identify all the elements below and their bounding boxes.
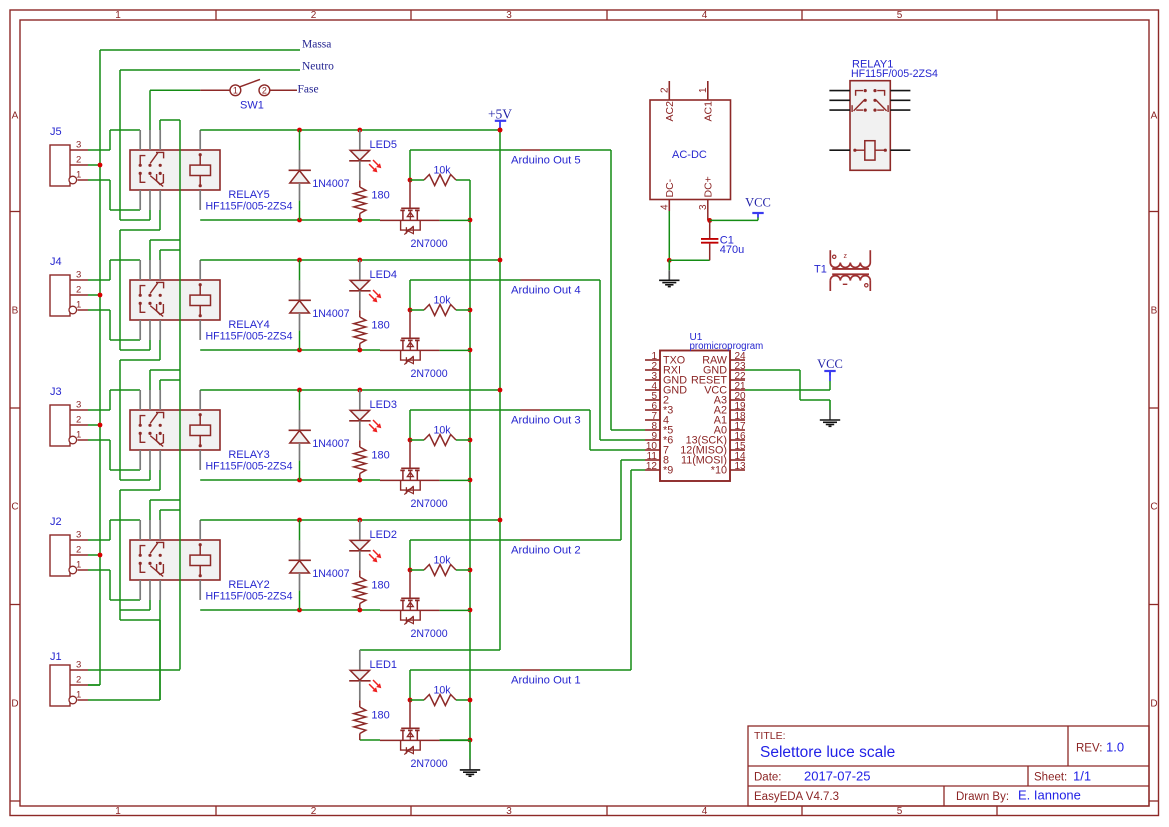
svg-text:HF115F/005-2ZS4: HF115F/005-2ZS4 <box>206 201 293 213</box>
svg-text:LED2: LED2 <box>370 529 398 541</box>
svg-text:J2: J2 <box>50 516 62 528</box>
svg-text:5: 5 <box>897 10 903 21</box>
svg-text:AC2: AC2 <box>664 101 676 122</box>
svg-text:A: A <box>12 111 19 122</box>
svg-text:C: C <box>11 502 18 513</box>
svg-text:+5V: +5V <box>488 107 512 122</box>
svg-text:2N7000: 2N7000 <box>411 368 448 380</box>
svg-text:B: B <box>12 306 19 317</box>
svg-text:2N7000: 2N7000 <box>411 498 448 510</box>
svg-text:RELAY4: RELAY4 <box>228 319 269 331</box>
svg-text:10k: 10k <box>434 425 452 437</box>
svg-text:10k: 10k <box>434 555 452 567</box>
svg-text:12: 12 <box>646 461 658 472</box>
svg-text:J1: J1 <box>50 651 62 663</box>
svg-text:A: A <box>1151 111 1158 122</box>
svg-text:Arduino Out 3: Arduino Out 3 <box>511 415 581 427</box>
svg-text:2N7000: 2N7000 <box>411 238 448 250</box>
svg-text:10k: 10k <box>434 165 452 177</box>
svg-text:1: 1 <box>76 690 81 701</box>
svg-text:2: 2 <box>76 545 81 556</box>
svg-text:4: 4 <box>659 204 670 210</box>
svg-text:1N4007: 1N4007 <box>312 438 349 450</box>
svg-text:VCC: VCC <box>817 357 843 371</box>
svg-text:C: C <box>1150 502 1157 513</box>
svg-text:RELAY2: RELAY2 <box>228 579 269 591</box>
svg-text:HF115F/005-2ZS4: HF115F/005-2ZS4 <box>206 461 293 473</box>
svg-text:2: 2 <box>76 285 81 296</box>
svg-text:2: 2 <box>311 10 317 21</box>
svg-text:1: 1 <box>76 560 81 571</box>
svg-text:180: 180 <box>371 190 389 202</box>
svg-text:1: 1 <box>76 170 81 181</box>
svg-text:2: 2 <box>659 87 670 93</box>
svg-text:*9: *9 <box>663 465 673 477</box>
svg-text:2: 2 <box>76 415 81 426</box>
svg-text:Neutro: Neutro <box>302 60 334 72</box>
svg-text:2: 2 <box>76 675 81 686</box>
svg-text:HF115F/005-2ZS4: HF115F/005-2ZS4 <box>206 331 293 343</box>
svg-text:13: 13 <box>735 461 747 472</box>
svg-text:3: 3 <box>76 400 81 411</box>
svg-text:180: 180 <box>371 580 389 592</box>
svg-text:1.0: 1.0 <box>1106 740 1124 755</box>
svg-text:D: D <box>1150 699 1157 710</box>
svg-text:4: 4 <box>702 806 708 817</box>
svg-text:3: 3 <box>506 10 512 21</box>
svg-text:REV:: REV: <box>1076 743 1102 755</box>
svg-text:2: 2 <box>311 806 317 817</box>
svg-text:LED4: LED4 <box>370 269 398 281</box>
svg-text:1/1: 1/1 <box>1073 769 1091 784</box>
svg-text:HF115F/005-2ZS4: HF115F/005-2ZS4 <box>206 591 293 603</box>
svg-text:1: 1 <box>115 10 121 21</box>
svg-text:AC1: AC1 <box>703 101 715 122</box>
svg-text:DC+: DC+ <box>703 176 715 197</box>
svg-text:LED1: LED1 <box>370 659 398 671</box>
svg-text:Arduino Out 1: Arduino Out 1 <box>511 675 581 687</box>
svg-text:Arduino Out 2: Arduino Out 2 <box>511 545 581 557</box>
svg-text:2: 2 <box>76 155 81 166</box>
svg-text:TITLE:: TITLE: <box>754 730 786 742</box>
svg-text:10k: 10k <box>434 295 452 307</box>
svg-text:J4: J4 <box>50 256 62 268</box>
svg-text:LED5: LED5 <box>370 139 398 151</box>
svg-text:4: 4 <box>702 10 708 21</box>
svg-text:5: 5 <box>897 806 903 817</box>
svg-text:SW1: SW1 <box>240 99 264 111</box>
svg-text:B: B <box>1151 306 1158 317</box>
svg-text:3: 3 <box>506 806 512 817</box>
svg-text:1: 1 <box>76 300 81 311</box>
svg-text:HF115F/005-2ZS4: HF115F/005-2ZS4 <box>851 68 938 80</box>
svg-text:Drawn By:: Drawn By: <box>956 791 1009 803</box>
svg-text:Fase: Fase <box>298 84 319 96</box>
svg-text:1: 1 <box>115 806 121 817</box>
svg-text:470u: 470u <box>720 244 744 256</box>
svg-text:180: 180 <box>371 320 389 332</box>
svg-text:180: 180 <box>371 710 389 722</box>
svg-text:1: 1 <box>698 87 709 93</box>
svg-text:1: 1 <box>76 430 81 441</box>
svg-text:2017-07-25: 2017-07-25 <box>804 769 871 784</box>
svg-text:J5: J5 <box>50 126 62 138</box>
svg-text:DC-: DC- <box>664 178 676 197</box>
svg-text:z: z <box>844 253 848 260</box>
svg-text:T1: T1 <box>814 264 827 276</box>
svg-text:2N7000: 2N7000 <box>411 758 448 770</box>
svg-text:10k: 10k <box>434 685 452 697</box>
svg-text:1N4007: 1N4007 <box>312 308 349 320</box>
svg-text:3: 3 <box>76 270 81 281</box>
svg-text:1N4007: 1N4007 <box>312 178 349 190</box>
svg-text:3: 3 <box>76 140 81 151</box>
svg-text:1N4007: 1N4007 <box>312 568 349 580</box>
svg-text:180: 180 <box>371 450 389 462</box>
svg-text:RELAY3: RELAY3 <box>228 449 269 461</box>
svg-text:VCC: VCC <box>745 196 771 210</box>
svg-text:Date:: Date: <box>754 772 782 784</box>
svg-text:Sheet:: Sheet: <box>1034 772 1067 784</box>
svg-text:Arduino Out 5: Arduino Out 5 <box>511 155 581 167</box>
svg-text:*10: *10 <box>711 465 727 477</box>
svg-text:3: 3 <box>76 660 81 671</box>
svg-text:3: 3 <box>76 530 81 541</box>
svg-text:Arduino Out 4: Arduino Out 4 <box>511 285 581 297</box>
svg-text:Massa: Massa <box>302 39 331 51</box>
svg-text:1: 1 <box>233 86 238 96</box>
svg-text:AC-DC: AC-DC <box>672 149 707 161</box>
svg-text:LED3: LED3 <box>370 399 398 411</box>
svg-text:D: D <box>11 699 18 710</box>
svg-text:EasyEDA V4.7.3: EasyEDA V4.7.3 <box>754 791 839 803</box>
svg-text:promicroprogram: promicroprogram <box>690 341 764 352</box>
svg-text:J3: J3 <box>50 386 62 398</box>
svg-text:2N7000: 2N7000 <box>411 628 448 640</box>
svg-text:RELAY5: RELAY5 <box>228 189 269 201</box>
svg-text:Selettore luce scale: Selettore luce scale <box>760 744 895 761</box>
svg-text:2: 2 <box>262 86 267 96</box>
svg-text:E. Iannone: E. Iannone <box>1018 788 1081 803</box>
